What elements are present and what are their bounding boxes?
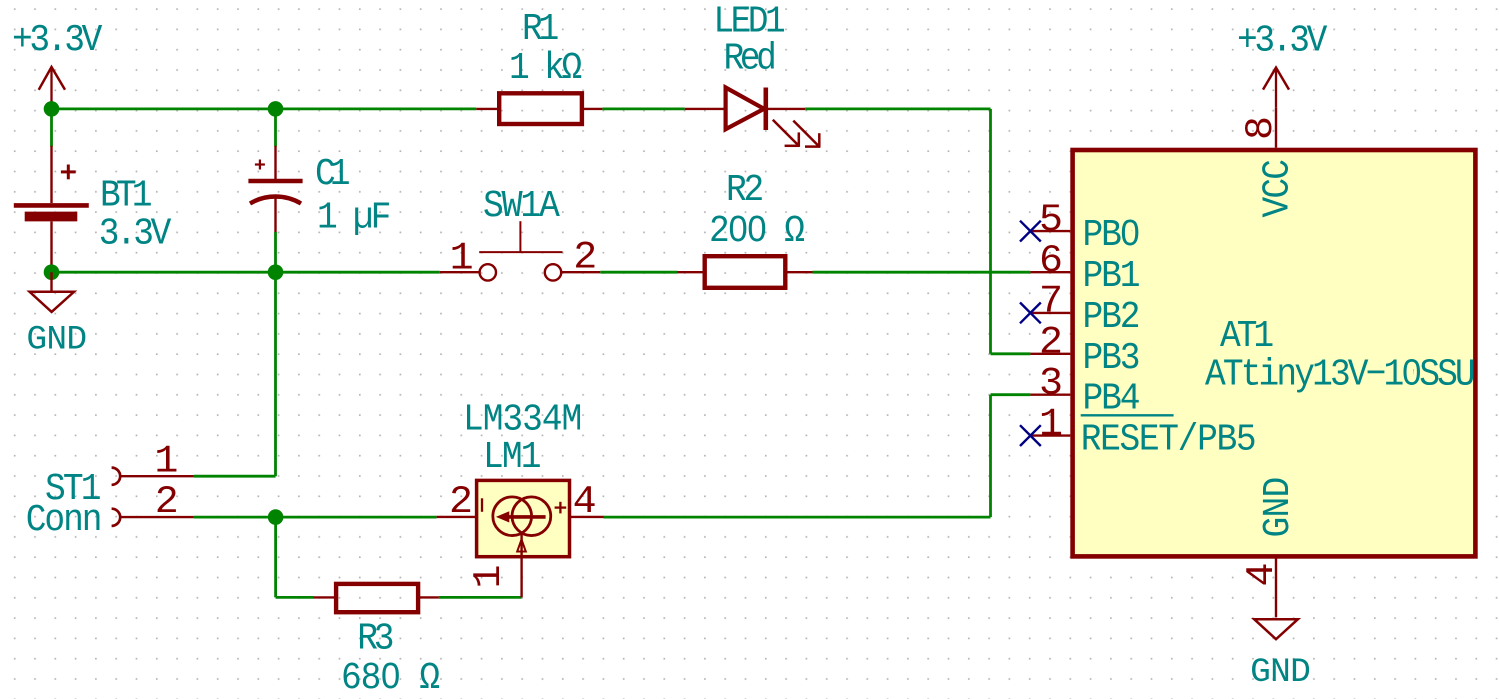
label R2 value 200 Ohm xyxy=(709,210,804,253)
wire ST1 pin2 to LM1 xyxy=(194,516,437,519)
IC AT1 body xyxy=(1073,150,1476,556)
current source LM1 pin1 arrowhead xyxy=(517,540,526,552)
wire LED1 to IC corner xyxy=(805,109,1030,354)
junction dot node VCC-rail/C1 xyxy=(268,101,284,117)
IC AT1 pin name PB2 xyxy=(1083,296,1139,339)
wire R3 to LM1 pin3 xyxy=(439,596,522,599)
svg-text:Conn: Conn xyxy=(26,499,101,542)
wire SW1A to R2 xyxy=(600,271,677,274)
switch SW1A contact circle 1 xyxy=(480,264,496,280)
battery BT1 top plate xyxy=(14,203,89,208)
junction dot node GND-rail/C1 xyxy=(268,264,284,280)
battery BT1 bottom pin xyxy=(50,221,52,272)
power +3.3V symbol (left) xyxy=(39,67,65,109)
svg-text:PB4: PB4 xyxy=(1083,377,1139,420)
current source LM1 pin 1 lead xyxy=(520,533,522,597)
junction dot node ST1-2/R3 xyxy=(268,509,284,525)
svg-text:R1: R1 xyxy=(522,8,558,51)
capacitor C1 bottom plate arc xyxy=(250,197,301,204)
IC AT1 pin 8 lead (VCC) xyxy=(1275,108,1277,148)
wire BT1 plus stub xyxy=(50,109,53,147)
current source LM1 circle A xyxy=(493,497,532,536)
LED1 emission arrow 1 xyxy=(773,120,800,147)
IC AT1 pin 4 lead (GND) xyxy=(1275,556,1277,617)
svg-text:GND: GND xyxy=(26,321,86,360)
LED1 triangle xyxy=(726,88,764,130)
junction dot node VCC-rail/BT1 xyxy=(44,101,60,117)
wire LM1 pin4 to PB4 xyxy=(604,395,1031,517)
svg-text:C1: C1 xyxy=(315,153,349,196)
LED1 cathode pin xyxy=(766,108,805,110)
svg-text:PB2: PB2 xyxy=(1083,296,1139,339)
svg-text:LM334M: LM334M xyxy=(463,398,581,441)
svg-text:R3: R3 xyxy=(357,617,393,660)
battery BT1 plus sign xyxy=(61,165,76,180)
svg-text:GND: GND xyxy=(1250,653,1310,692)
IC AT1 pin 6 lead (PB1) xyxy=(1030,271,1070,273)
capacitor C1 bottom pin xyxy=(274,197,276,232)
switch SW1A actuator stem xyxy=(519,221,521,252)
wire C1 bottom stub xyxy=(274,232,277,272)
switch SW1A actuator bar xyxy=(479,251,562,253)
connector ST1 pin 1 lead xyxy=(120,475,194,477)
switch SW1A contact circle 2 xyxy=(545,264,561,280)
svg-text:SW1A: SW1A xyxy=(483,185,560,228)
battery BT1 bottom plate xyxy=(25,212,78,222)
ground symbol (right) xyxy=(1254,619,1298,639)
wire second rail xyxy=(52,271,440,274)
svg-text:1 kΩ: 1 kΩ xyxy=(509,47,582,90)
power +3.3V symbol (right) xyxy=(1263,68,1289,108)
capacitor C1 plus sign xyxy=(255,160,265,170)
label R3 value 680 Ohm xyxy=(341,657,439,699)
connector ST1 pin 2 socket xyxy=(112,509,121,526)
svg-text:RESET/PB5: RESET/PB5 xyxy=(1081,418,1256,461)
wire VCC rail top xyxy=(52,108,477,111)
resistor R1 left pin xyxy=(476,108,499,110)
IC AT1 pin 2 lead (PB3) xyxy=(1030,353,1070,355)
battery BT1 top pin xyxy=(50,146,52,203)
label AT1 value ATtiny13V-10SSU xyxy=(1205,353,1474,396)
current source LM1 pin 2 lead xyxy=(437,516,476,518)
wire R1 to LED1 xyxy=(602,108,684,111)
svg-text:VCC: VCC xyxy=(1256,160,1299,218)
svg-text:PB1: PB1 xyxy=(1083,255,1139,298)
capacitor C1 top plate xyxy=(248,179,302,184)
current source LM1 circle B xyxy=(512,497,551,536)
wire junction down to R3 xyxy=(276,517,314,597)
connector ST1 pin 1 socket xyxy=(112,468,121,485)
resistor R3 body xyxy=(336,584,418,612)
IC AT1 pin name PB0 xyxy=(1083,214,1139,257)
svg-text:GND: GND xyxy=(1257,477,1300,537)
resistor R1 body xyxy=(499,93,582,124)
resistor R2 right pin xyxy=(785,271,812,273)
wire R2 to PB1 xyxy=(813,271,1031,274)
resistor R3 right pin xyxy=(418,596,439,598)
LED1 emission arrow 2 xyxy=(793,121,820,148)
resistor R2 left pin xyxy=(678,271,706,273)
resistor R1 right pin xyxy=(582,108,603,110)
svg-text:BT1: BT1 xyxy=(100,174,151,217)
IC AT1 pin 1 lead (RESET/PB5) xyxy=(1030,434,1070,436)
resistor R2 body xyxy=(705,256,786,288)
current source LM1 minus sign xyxy=(481,498,483,512)
IC AT1 pin 3 lead (PB4) xyxy=(1030,394,1070,396)
current source LM1 plus sign xyxy=(555,502,567,514)
svg-text:AT1: AT1 xyxy=(1220,315,1272,358)
svg-text:R2: R2 xyxy=(726,169,763,212)
IC AT1 pin 5 lead (PB0) xyxy=(1030,230,1070,232)
junction dot node GND-rail/BT1 xyxy=(44,264,60,280)
IC AT1 pin 7 lead (PB2) xyxy=(1030,312,1070,314)
svg-text:1 µF: 1 µF xyxy=(317,196,390,239)
ground symbol (left) xyxy=(30,292,74,312)
IC AT1 pin name PB3 xyxy=(1083,337,1139,380)
current source LM1 arrow xyxy=(496,511,546,522)
IC AT1 pin name PB1 xyxy=(1083,255,1139,298)
IC AT1 pin name PB4 xyxy=(1083,377,1139,420)
switch SW1A pin 1 xyxy=(440,271,480,273)
no-connect X on PB0 xyxy=(1020,221,1041,242)
svg-text:Red: Red xyxy=(724,37,775,80)
no-connect X on RESET/PB5 xyxy=(1020,425,1041,446)
current source LM1 body box xyxy=(477,480,570,556)
connector ST1 pin 2 lead xyxy=(120,516,194,518)
resistor R3 left pin xyxy=(314,596,337,598)
wire C1 column down to ST1 pin1 row xyxy=(194,272,276,476)
svg-text:LM1: LM1 xyxy=(483,436,540,479)
LED1 anode pin xyxy=(685,108,726,110)
svg-text:ATtiny13V−10SSU: ATtiny13V−10SSU xyxy=(1205,353,1474,396)
current source LM1 pin 4 lead xyxy=(570,516,604,518)
switch SW1A pin 2 xyxy=(562,271,601,273)
LED1 cathode bar xyxy=(763,88,768,131)
svg-text:PB3: PB3 xyxy=(1083,337,1139,380)
ground stub BT1 xyxy=(50,272,52,292)
IC AT1 RESET overline xyxy=(1081,414,1174,416)
svg-text:3.3V: 3.3V xyxy=(99,212,172,255)
capacitor C1 top pin xyxy=(274,146,276,181)
no-connect X on PB2 xyxy=(1020,303,1041,324)
svg-text:+3.3V: +3.3V xyxy=(12,19,103,62)
svg-text:+3.3V: +3.3V xyxy=(1237,19,1328,62)
wire C1 top stub xyxy=(274,109,277,147)
